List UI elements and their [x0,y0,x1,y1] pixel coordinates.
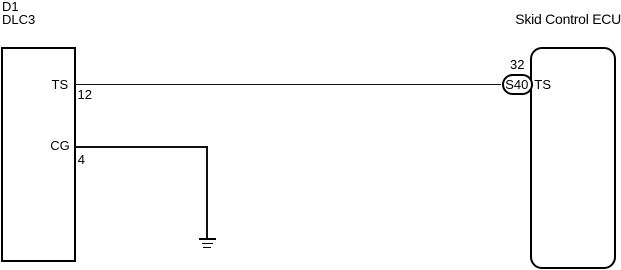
connector splice S40 oval [502,74,533,96]
pin CG of D1 [50,139,70,152]
pin number 12 [78,88,92,101]
label S40 [505,78,528,91]
wire CG horizontal segment [75,146,208,148]
ground [199,238,216,240]
ECU U1 body (Skid Control ECU) [530,47,616,269]
pin number 4 [78,153,85,166]
pin TS of Skid Control ECU [534,78,551,91]
wire CG vertical segment [206,146,208,238]
connector D1 (DLC3) reference label [2,1,35,26]
ECU U1 label: Skid Control ECU [515,12,621,26]
pin number 32 [510,58,524,71]
pin TS of D1 [52,78,69,91]
connector D1 (DLC3) body [1,47,76,262]
wire TS: D1 pin 12 to S40 [75,84,502,86]
